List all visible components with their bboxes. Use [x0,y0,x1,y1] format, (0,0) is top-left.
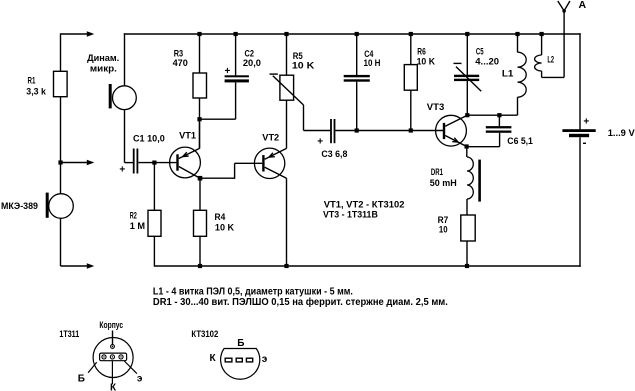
wire R6 top lead [410,34,412,65]
pinout 1T311 case [112,331,114,345]
svg-text:VT3: VT3 [427,102,445,113]
wire C1 to VT1 base [138,162,177,164]
wire C3 to VT3 base [335,130,443,132]
wire dyn mic bottom lead [124,110,126,163]
svg-text:R4: R4 [215,212,226,223]
VT2 arrow [269,156,275,158]
wire R3 bottom to VT1 collector [199,98,201,149]
battery GB1 [562,129,595,132]
node VT1 emitter junction [198,176,203,181]
wire battery top lead [579,33,581,129]
wire R5 top lead [286,34,288,75]
svg-text:+: + [317,137,323,148]
svg-text:Б: Б [237,338,244,349]
svg-text:1 М: 1 М [130,221,145,232]
wire R4 top lead [199,178,201,210]
svg-text:C3 6,8: C3 6,8 [321,149,347,160]
node L2 top junction [540,32,544,36]
svg-text:L1 - 4 витка ПЭЛ 0,5, диаметр: L1 - 4 витка ПЭЛ 0,5, диаметр катушки - … [153,287,353,298]
wire C6 top lead [498,115,500,126]
svg-text:10 K: 10 K [292,61,315,72]
svg-text:DR1 - 30...40 вит. ПЭЛШО 0,15: DR1 - 30...40 вит. ПЭЛШО 0,15 на феррит.… [153,296,448,308]
wire R2 bottom lead [153,236,155,266]
resistor R7 [461,215,475,241]
svg-text:20,0: 20,0 [243,58,261,69]
svg-text:L2: L2 [547,55,554,66]
svg-text:МКЭ-389: МКЭ-389 [1,201,38,212]
VT1 arrow [183,155,189,157]
svg-text:1...9 V: 1...9 V [608,128,635,139]
wire R6 bottom lead [410,90,412,130]
wire VT3 collector node [467,114,517,116]
svg-text:VT1: VT1 [179,131,197,142]
svg-text:КТ3102: КТ3102 [191,329,218,340]
variable resistor R5 [280,75,294,100]
svg-text:A: A [579,0,587,11]
svg-text:4...20: 4...20 [475,57,499,68]
node VT1 collector junction [197,117,201,121]
svg-text:C6 5,1: C6 5,1 [507,136,533,147]
wire C2 bottom lead [235,82,237,119]
wire VT2 collector up to R5 [286,100,288,148]
wire R7 bottom lead [466,241,468,266]
capacitor C2 [225,75,249,77]
wire R2 top lead [153,163,155,211]
wire bottom tap arrow to ground bus [61,265,88,267]
wire C2 top lead [235,34,237,76]
node C6 top junction [497,113,501,117]
svg-text:э: э [262,354,268,365]
trimmer capacitor C5 [454,75,479,77]
inductor L1 [517,34,519,52]
svg-text:10 K: 10 K [417,57,436,68]
wire top supply bus [124,33,581,35]
wire VT1e to VT2b [200,177,235,179]
wire R5 wiper to C3 [303,105,305,131]
wire mid tap arrow to C1 input [61,162,88,164]
svg-text:1Т311: 1Т311 [59,329,79,340]
wire R3 top lead [199,34,201,73]
svg-text:10 K: 10 K [215,223,234,234]
capacitor C6 [486,126,512,128]
svg-text:К: К [210,353,217,364]
svg-text:50 mH: 50 mH [430,178,457,189]
svg-text:C1 10,0: C1 10,0 [133,134,165,145]
node tap junction dot [58,160,62,164]
node C5 top junction [465,32,469,36]
wire ground bus [154,265,580,267]
node VT2 emitter ground junction [284,264,288,268]
node VT3 collector junction [465,113,469,117]
node R6 top junction [409,32,413,36]
svg-text:Корпус: Корпус [99,320,123,331]
wire battery bottom lead [579,137,581,267]
capacitor C4 [344,75,370,77]
svg-text:-: - [583,135,587,149]
resistor R1 [54,71,68,96]
svg-text:микр.: микр. [90,63,117,74]
resistor R6 [404,65,417,91]
wire DR1 top lead [466,147,468,158]
resistor R3 [193,73,207,98]
svg-text:Б: Б [78,374,85,385]
svg-text:VT3 - 1Т311В: VT3 - 1Т311В [323,209,378,220]
wire R1 bottom to mic [60,97,62,194]
resistor R2 [148,210,161,236]
wire C4 top lead [356,34,358,75]
svg-text:DR1: DR1 [431,167,444,178]
wire dyn mic top lead [124,33,126,86]
node VT3 emitter junction [465,144,469,148]
wire R1 top lead [60,33,62,71]
svg-text:470: 470 [173,58,188,69]
svg-text:R2: R2 [130,211,137,222]
wire R4 bottom lead [199,236,201,266]
node R3 top junction [197,32,201,36]
svg-text:L1: L1 [502,69,514,80]
microphone BM1 MKE-389 [49,194,74,219]
antenna A [558,1,564,11]
svg-text:10: 10 [439,225,448,236]
svg-text:+: + [119,165,125,176]
transistor VT3 [436,115,467,146]
wire mic bottom lead [60,218,62,266]
node C1/R2/VT1b junction [152,161,156,165]
node R5 top junction [284,32,288,36]
wire C5 top lead [466,34,468,75]
wire VT1 collector up [199,119,201,148]
transistor VT1 [170,147,201,178]
node R4 ground junction [198,264,202,268]
inductor DR1 [467,157,473,199]
svg-text:3,3 k: 3,3 k [26,86,46,97]
capacitor C1 [133,149,135,174]
microphone dynamic [113,86,137,110]
node R7 ground junction [465,264,469,268]
svg-text:10 H: 10 H [364,58,381,69]
transistor VT2 [254,148,284,178]
svg-text:+: + [583,117,589,128]
svg-text:VT2: VT2 [262,133,279,144]
wire top tap arrow to + bus [61,33,88,35]
wire C4 bottom lead [356,82,358,131]
resistor R4 [194,210,207,236]
wire VT2 emitter down to ground [286,178,288,266]
inductor L2 [541,34,543,55]
svg-text:R1: R1 [28,76,36,87]
wire C6 bottom lead [499,133,501,147]
VT3 arrow [454,138,458,142]
node R6 bottom junction [409,128,413,132]
node C4 bottom junction [355,128,359,132]
svg-text:К: К [110,383,117,391]
pinout KT3102 case [221,349,260,380]
node C2 top junction [234,32,238,36]
node C4 top junction [355,32,359,36]
capacitor C3 [330,119,332,143]
node L1 top junction [515,32,519,36]
svg-text:э: э [137,374,143,385]
wire C5 bottom lead [466,81,468,115]
svg-text:+: + [224,66,230,77]
